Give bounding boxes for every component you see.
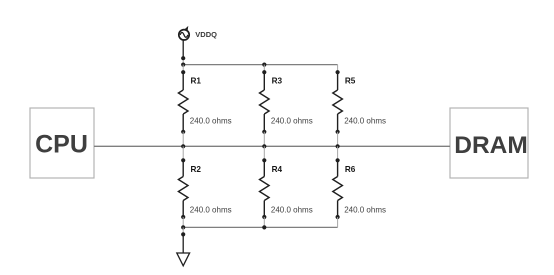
svg-text:R1: R1 [191,76,202,85]
svg-text:R6: R6 [345,165,356,174]
ground [177,234,190,265]
wire R6 pin 2 to bottom rail [337,217,339,227]
resistor R4 [260,158,270,219]
wire voltage source to top rail [182,40,184,64]
block DRAM [450,108,528,178]
svg-text:VDDQ: VDDQ [195,30,217,39]
wire CPU to DRAM (signal net) [94,145,450,147]
pin dot ground terminal [181,232,185,236]
value label R4 240.0 ohms [271,205,313,214]
value label R6 240.0 ohms [344,205,386,214]
junction dot bottom rail / R4 branch [262,225,266,229]
label R2 [191,165,202,174]
svg-text:240.0 ohms: 240.0 ohms [271,117,313,126]
svg-text:240.0 ohms: 240.0 ohms [190,117,232,126]
wire middle net to R4 pin 1 [263,146,265,160]
wire R5 pin 2 to middle net [337,132,339,147]
net label VDDQ [195,30,217,39]
svg-text:DRAM: DRAM [454,132,528,159]
value label R2 240.0 ohms [190,205,232,214]
wire R1 pin 2 to middle net [182,132,184,147]
label R4 [272,165,283,174]
junction dot middle net / branch 1 [181,144,185,148]
junction dot bottom rail / R2 branch [181,225,185,229]
wire top rail to R5 pin 1 [337,65,339,73]
label R5 [345,76,356,85]
junction dot top rail / R3 branch [262,63,266,67]
junction dot top rail / R1 branch [181,63,185,67]
value label R3 240.0 ohms [271,117,313,126]
resistor R3 [260,70,270,134]
wire top rail to R3 pin 1 [263,65,265,73]
wire top rail (VDDQ net) [183,64,337,66]
label R6 [345,165,356,174]
label R1 [191,76,202,85]
svg-text:R2: R2 [191,165,202,174]
wire middle net to R6 pin 1 [337,146,339,160]
resistor R1 [178,70,188,134]
svg-text:240.0 ohms: 240.0 ohms [344,205,386,214]
junction dot middle net / branch 3 [336,144,340,148]
junction dot middle net / branch 2 [262,144,266,148]
value label R5 240.0 ohms [344,117,386,126]
wire top rail to R1 pin 1 [182,65,184,73]
wire middle net to R2 pin 1 [182,146,184,160]
svg-text:R5: R5 [345,76,356,85]
pin dot voltage source terminal [181,56,185,60]
svg-text:R3: R3 [272,76,283,85]
wire bottom rail to ground symbol [182,227,184,234]
svg-text:240.0 ohms: 240.0 ohms [344,117,386,126]
voltage source V1 (AC symbol) [179,26,189,40]
wire R4 pin 2 to bottom rail [263,217,265,227]
svg-text:240.0 ohms: 240.0 ohms [190,205,232,214]
wire bottom rail (ground net) [183,226,337,228]
value label R1 240.0 ohms [190,117,232,126]
resistor R5 [333,70,343,134]
svg-text:240.0 ohms: 240.0 ohms [271,205,313,214]
wire R3 pin 2 to middle net [263,132,265,147]
svg-text:R4: R4 [272,165,283,174]
label R3 [272,76,283,85]
svg-text:CPU: CPU [35,130,88,158]
wire R2 pin 2 to bottom rail [182,217,184,227]
block CPU [30,108,94,178]
resistor R6 [333,158,343,219]
resistor R2 [178,158,188,219]
